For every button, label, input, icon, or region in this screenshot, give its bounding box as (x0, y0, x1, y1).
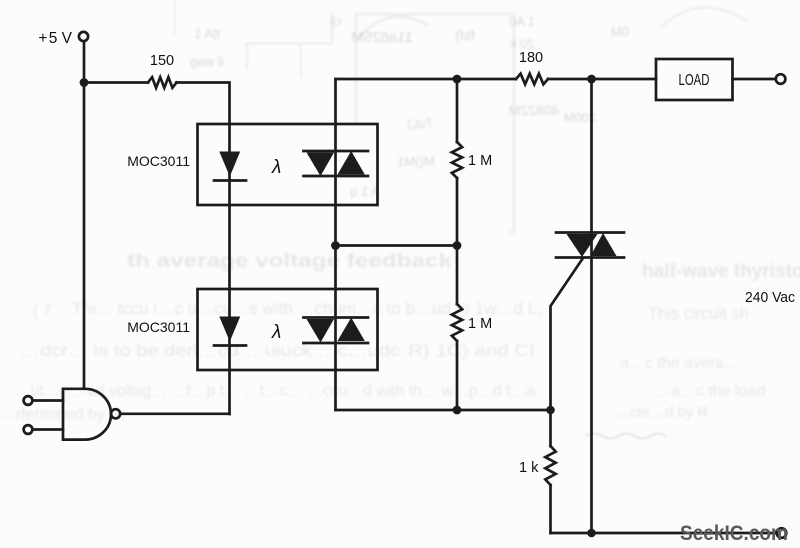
wire: triac gate (551, 258, 584, 410)
svg-text:th average voltage feedback: th average voltage feedback (127, 251, 453, 272)
wire: NAND output to LED cathode column (120, 412, 229, 415)
optocoupler U1 box MOC3011 (198, 124, 378, 205)
svg-text:150: 150 (150, 53, 174, 69)
svg-text:…a…c the load: …a…c the load (655, 383, 765, 400)
wire: LOAD to right terminal (733, 78, 776, 81)
LOAD box (656, 59, 733, 100)
optocoupler U2 box MOC3011 (198, 289, 378, 370)
LED D1 (inside U1) (214, 152, 246, 181)
svg-text:fsf): fsf) (455, 27, 474, 43)
svg-text:λ: λ (271, 157, 281, 178)
wire: +5V rail down to NAND gate (83, 41, 86, 388)
svg-text:+ 5 V: + 5 V (38, 30, 72, 47)
wire: input B (33, 428, 63, 431)
svg-text:A 1 q: A 1 q (350, 184, 380, 199)
svg-text:t|A 1: t|A 1 (194, 26, 220, 41)
right AC terminal (top) (776, 74, 786, 84)
resistor R1 150 (148, 77, 177, 88)
svg-text:c|i: c|i (330, 14, 342, 28)
NAND input terminal B (24, 425, 33, 434)
NAND output bubble (111, 409, 120, 418)
svg-text:…cte…d by R: …cte…d by R (615, 404, 709, 421)
node: lower tie / gate (546, 406, 555, 415)
faint arc bleed top right (660, 7, 748, 28)
faint line bleed (331, 12, 333, 44)
svg-text:180: 180 (519, 50, 543, 66)
wire: phototriac column (left vertical of AC chain) (334, 79, 337, 410)
wire: 180 to LOAD (548, 78, 656, 81)
wire: triac column from top rail (590, 79, 593, 533)
node: top rail / triac junction (587, 75, 596, 84)
+5 V terminal (79, 32, 88, 41)
resistor R4 1M (lower) (456, 246, 459, 305)
wire: mid tie between triac column and divider (336, 244, 458, 247)
svg-text:LOAD: LOAD (679, 72, 710, 89)
svg-text:40822M: 40822M (509, 102, 560, 118)
svg-text:SeekIC.com: SeekIC.com (680, 522, 788, 545)
wire: lower tie (phototriac chain to gate/1k) (336, 409, 551, 412)
svg-text:1 M: 1 M (468, 316, 492, 332)
svg-text:…dcr… is to be deri…cd …uiuc: …dcr… is to be deri…cd …uiuck …c…udc (20, 342, 400, 360)
svg-text:il wag: il wag (190, 54, 223, 69)
resistor R2 180 (516, 74, 548, 85)
node: lower tie / divider (453, 406, 462, 415)
node: top rail / R3 junction (453, 75, 462, 84)
svg-text:a…c the avera…: a…c the avera… (620, 355, 740, 372)
svg-text:MOC3011: MOC3011 (127, 319, 190, 335)
svg-text:0M: 0M (611, 24, 629, 39)
phototriac of U1 (304, 151, 369, 176)
svg-text:20 k: 20 k (509, 36, 534, 51)
wire: bottom AC rail (551, 532, 777, 535)
node: mid tie right (453, 241, 462, 250)
faint arc bleed top centre (358, 16, 428, 38)
svg-text:240 Vac: 240 Vac (745, 289, 795, 306)
svg-text:R) 1C) and CI: R) 1C) and CI (408, 342, 535, 360)
wire: top AC rail (336, 78, 517, 81)
NAND input terminal A (24, 396, 33, 405)
wire: node to resistor 150 (84, 81, 148, 84)
wire: input A (33, 399, 63, 402)
svg-text:7uL): 7uL) (407, 116, 433, 131)
NAND gate U3 (63, 389, 111, 440)
svg-text:half-wave thyristor co: half-wave thyristor co (642, 261, 800, 282)
wire: resistor 150 to LED column corner (177, 83, 230, 125)
svg-text:M()M1: M()M1 (397, 154, 435, 169)
resistor R5 1k (549, 410, 552, 446)
node: mid tie left (331, 241, 340, 250)
LED D2 (inside U2) (214, 317, 246, 346)
svg-text:1 A0: 1 A0 (509, 14, 535, 29)
faint box outline bleed top centre (356, 14, 514, 232)
triac Q1 (556, 233, 624, 258)
right AC terminal (bottom) (777, 528, 787, 538)
wire: LED column through both optocouplers (228, 124, 231, 414)
svg-text:MOC3011: MOC3011 (127, 153, 190, 169)
resistor R3 1M (upper) (456, 79, 459, 142)
svg-text:( 7.: ( 7. (33, 303, 56, 320)
svg-text:This circuit sh: This circuit sh (648, 305, 749, 323)
svg-text:1 k: 1 k (519, 460, 539, 476)
node: +5V / R1 junction (80, 78, 89, 87)
node: bottom rail / triac (587, 529, 596, 538)
svg-text:1 M: 1 M (468, 153, 492, 169)
faint caption/paragraph bleed-through (0, 251, 800, 423)
svg-text:11a625M: 11a625M (351, 29, 412, 46)
svg-text:λ: λ (271, 322, 281, 343)
phototriac of U2 (304, 318, 369, 344)
